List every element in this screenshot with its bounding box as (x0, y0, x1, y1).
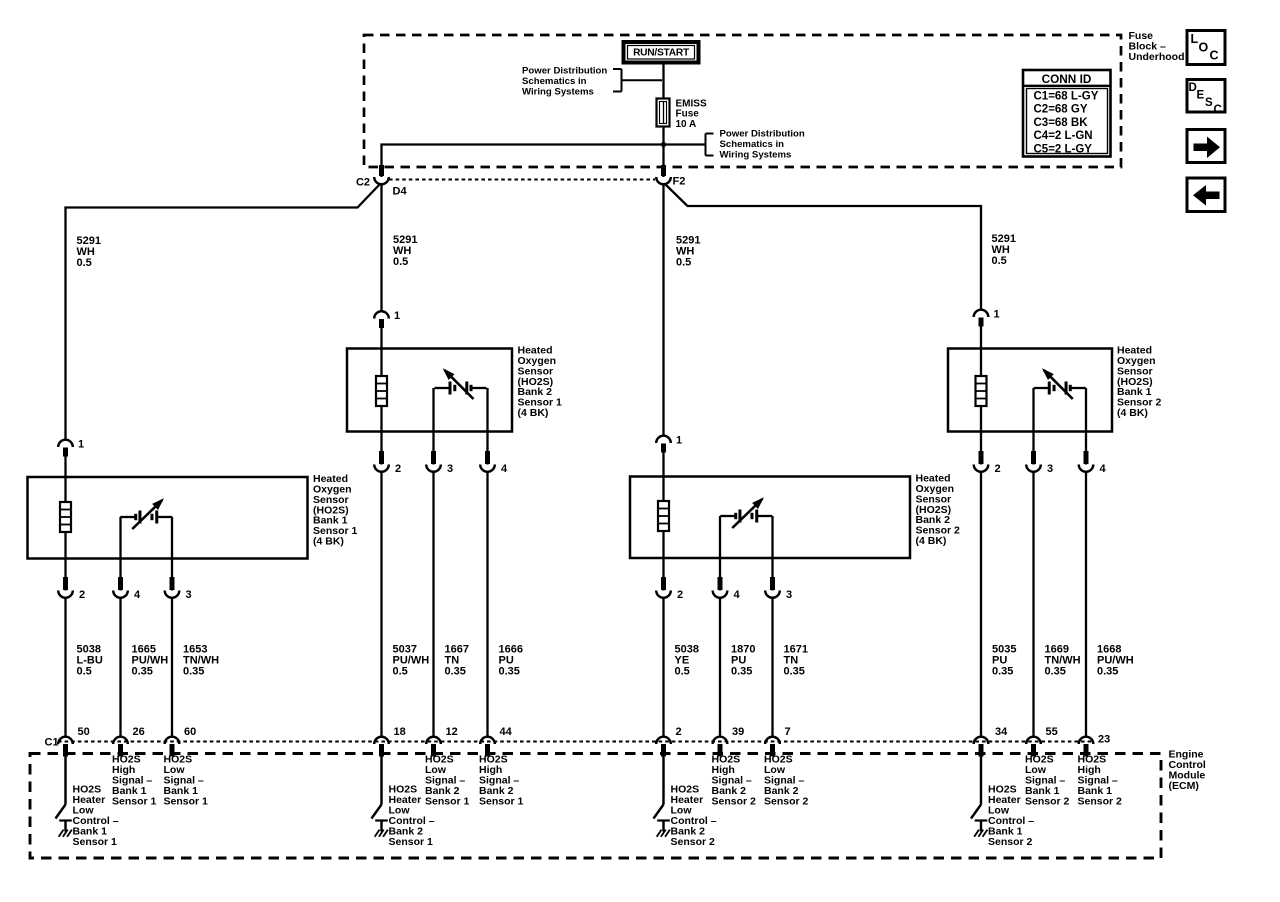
label HO2S Heater Low Control B2S1 (389, 784, 435, 849)
svg-text:55: 55 (1046, 726, 1058, 738)
svg-text:C: C (1210, 49, 1219, 63)
svg-text:1: 1 (676, 435, 682, 447)
label HO2S Heater Low Control B1S1 (73, 784, 119, 849)
wire F2 drop (5291 WH) (662, 184, 664, 437)
label pin 3 B2S1 (447, 463, 453, 475)
svg-text:F2: F2 (673, 176, 686, 188)
wire pin1 into B1S2 box (980, 325, 982, 377)
low-side driver at pin (18) (372, 757, 388, 837)
svg-text:60: 60 (184, 726, 196, 738)
svg-text:C5=2 L-GY: C5=2 L-GY (1034, 143, 1093, 155)
svg-text:C4=2 L-GN: C4=2 L-GN (1034, 130, 1093, 142)
connector pin 1 B1S1 (58, 440, 73, 457)
svg-text:L: L (1191, 32, 1199, 46)
wire fuse output to C2 drop (382, 145, 706, 178)
label circuit 1667 TN (445, 643, 469, 677)
label pin 1 B2S2 (676, 435, 682, 447)
svg-text:3: 3 (786, 589, 792, 601)
sensor cell B1S1 (120, 498, 172, 529)
label Heated Oxygen Sensor B2S1 (518, 345, 563, 419)
svg-text:Sensor 1: Sensor 1 (425, 796, 470, 808)
connector pin 4 B2S2 (713, 577, 728, 598)
wire D4 drop (5291 WH) (380, 184, 382, 312)
svg-text:Schematics in: Schematics in (720, 139, 785, 150)
label HO2S High Signal B2S2 (712, 754, 757, 808)
label ECM pin 50 (78, 726, 90, 738)
svg-text:12: 12 (446, 726, 458, 738)
heater element B2S2 (658, 501, 669, 531)
label HO2S High Signal B1S2 (1078, 754, 1123, 808)
sensor cell B2S2 (720, 497, 772, 528)
label ECM pin 39 (732, 726, 744, 738)
svg-text:0.35: 0.35 (1045, 665, 1066, 677)
wire pin 3 B1S2 to ECM pin 55 (1032, 471, 1034, 738)
wire sensor right leg B1S2 (1085, 388, 1087, 465)
svg-text:7: 7 (785, 726, 791, 738)
heater element B2S1 (376, 376, 387, 406)
svg-text:2: 2 (79, 589, 85, 601)
svg-text:0.5: 0.5 (393, 665, 408, 677)
label pin 1 B2S1 (394, 310, 400, 322)
label circuit 1665 PU/WH (132, 643, 169, 677)
svg-text:(ECM): (ECM) (1169, 780, 1199, 792)
wire pin 4 B2S2 to ECM pin 39 (719, 597, 721, 738)
svg-text:S: S (1205, 97, 1213, 109)
svg-text:0.35: 0.35 (132, 665, 153, 677)
connector pin 2 B1S2 (974, 451, 989, 472)
label circuit 1870 PU (731, 643, 755, 677)
svg-text:0.5: 0.5 (77, 257, 92, 269)
connector pin 3 B2S1 (426, 451, 441, 472)
label Engine Control Module (ECM) (1169, 749, 1206, 793)
svg-text:4: 4 (1100, 463, 1107, 475)
wire pin1 into B1S1 box (64, 455, 66, 503)
svg-text:34: 34 (995, 726, 1008, 738)
wire pin 4 B1S1 to ECM pin 26 (119, 597, 121, 738)
wire sensor right leg B2S2 (771, 516, 773, 591)
svg-text:4: 4 (734, 589, 741, 601)
button previous page (left arrow) (1187, 178, 1225, 212)
label circuit 1671 TN (784, 643, 808, 677)
ECM dashed box (30, 754, 1161, 859)
RUN/START node box (624, 42, 699, 63)
svg-text:0.5: 0.5 (393, 256, 408, 268)
wire sensor right leg B2S1 (486, 388, 488, 465)
svg-text:0.35: 0.35 (731, 665, 752, 677)
svg-text:C1=68 L-GY: C1=68 L-GY (1034, 91, 1099, 103)
svg-text:E: E (1197, 90, 1205, 102)
wire pin 2 B2S2 to ECM pin 2 (662, 597, 664, 738)
button next page (right arrow) (1187, 130, 1225, 163)
label Heated Oxygen Sensor B1S2 (1117, 345, 1162, 419)
low-side driver at pin (50) (56, 757, 72, 837)
ECM pin 50 connector (58, 737, 73, 757)
label pin 2 B2S2 (677, 589, 683, 601)
ECM pin 18 connector (374, 737, 389, 757)
ECM connector dotted line (58, 741, 1092, 743)
label 5291 WH 0.5 (right) (992, 233, 1016, 267)
junction dot at fuse output (661, 142, 666, 147)
label pin 2 B1S2 (995, 463, 1001, 475)
label F2 (673, 176, 686, 188)
svg-text:26: 26 (133, 726, 145, 738)
ECM pin 39 connector (713, 737, 728, 757)
wire sensor left leg B2S1 (432, 388, 434, 465)
wire sensor left leg B1S1 (119, 517, 121, 591)
label pin 4 B2S1 (501, 463, 508, 475)
label pin 1 B1S2 (994, 309, 1000, 321)
low-side driver at pin (2) (654, 757, 670, 837)
label ECM pin 12 (446, 726, 458, 738)
heater element B1S2 (976, 376, 987, 406)
svg-text:Sensor 2: Sensor 2 (764, 796, 809, 808)
svg-text:1: 1 (394, 310, 400, 322)
ECM pin 12 connector (426, 737, 441, 757)
connector pin 4 B1S2 (1079, 451, 1094, 472)
label ECM pin 7 (785, 726, 791, 738)
label HO2S Low Signal B2S1 (425, 754, 470, 808)
label HO2S High Signal B2S1 (479, 754, 524, 808)
connector C2 (374, 165, 389, 184)
label ECM pin 44 (500, 726, 513, 738)
sensor cell B2S1 (435, 368, 487, 399)
svg-text:0.5: 0.5 (675, 665, 690, 677)
svg-text:Schematics in: Schematics in (522, 76, 587, 87)
svg-text:Power Distribution: Power Distribution (720, 129, 805, 140)
svg-text:4: 4 (134, 589, 141, 601)
label circuit 1653 TN/WH (183, 643, 219, 677)
label HO2S Low Signal B2S2 (764, 754, 809, 808)
svg-text:4: 4 (501, 463, 508, 475)
label EMISS Fuse 10 A (676, 98, 707, 129)
label HO2S Low Signal B1S1 (164, 754, 209, 808)
connector pin 1 B2S2 (656, 436, 671, 453)
svg-text:Sensor 1: Sensor 1 (164, 796, 209, 808)
low-side driver at pin (34) (971, 757, 987, 837)
label circuit 5038 YE (675, 643, 699, 677)
connector dotted line C2 to F2 (389, 179, 655, 181)
label pin 1 B1S1 (78, 439, 84, 451)
label pin 4 B2S2 (734, 589, 741, 601)
heater element B1S1 (60, 502, 71, 532)
label pin 4 B1S2 (1100, 463, 1107, 475)
HO2S B1S2 box (948, 349, 1112, 432)
svg-text:(4 BK): (4 BK) (518, 407, 549, 419)
svg-text:0.35: 0.35 (992, 665, 1013, 677)
wire sensor right leg B1S1 (171, 517, 173, 591)
label C1 (45, 737, 59, 749)
connector F2 (656, 165, 671, 184)
label HO2S Heater Low Control B2S2 (671, 784, 717, 849)
label pin 3 B2S2 (786, 589, 792, 601)
connector pin 3 B1S2 (1026, 451, 1041, 472)
connector pin 3 B2S2 (765, 577, 780, 598)
wire pin 4 B2S1 to ECM pin 44 (486, 471, 488, 738)
note Power Distribution (lower) (720, 129, 805, 161)
connector pin 2 B2S2 (656, 577, 671, 598)
svg-text:Wiring Systems: Wiring Systems (720, 150, 792, 161)
connector pin 2 B2S1 (374, 451, 389, 472)
svg-text:C2: C2 (356, 177, 370, 189)
svg-text:Sensor 2: Sensor 2 (712, 796, 757, 808)
svg-text:Sensor 2: Sensor 2 (1025, 796, 1070, 808)
svg-text:Sensor 1: Sensor 1 (73, 836, 118, 848)
ECM pin 34 connector (974, 737, 989, 757)
svg-text:23: 23 (1098, 734, 1110, 746)
CONN ID entries (1034, 91, 1099, 156)
svg-text:C1: C1 (45, 737, 59, 749)
label C2 (356, 177, 370, 189)
button DESC (1187, 80, 1225, 117)
svg-text:39: 39 (732, 726, 744, 738)
svg-text:C: C (1214, 104, 1222, 116)
label ECM pin 18 (394, 726, 406, 738)
ECM pin 7 connector (765, 737, 780, 757)
svg-text:Sensor 1: Sensor 1 (112, 796, 157, 808)
ECM pin 26 connector (113, 737, 128, 757)
svg-text:2: 2 (677, 589, 683, 601)
ECM pin 44 connector (480, 737, 495, 757)
label circuit 1669 TN/WH (1045, 643, 1081, 677)
svg-text:D4: D4 (393, 186, 408, 198)
label ECM pin 34 (995, 726, 1008, 738)
label pin 4 B1S1 (134, 589, 141, 601)
svg-text:C3=68 BK: C3=68 BK (1034, 117, 1089, 129)
svg-text:0.35: 0.35 (183, 665, 204, 677)
label Heated Oxygen Sensor B1S1 (313, 473, 358, 547)
label D4 (393, 186, 408, 198)
svg-text:Sensor 2: Sensor 2 (671, 836, 716, 848)
wire pin 3 B1S1 to ECM pin 60 (171, 597, 173, 738)
wire sensor left leg B1S2 (1032, 388, 1034, 465)
HO2S B2S2 box (630, 477, 910, 559)
svg-text:0.35: 0.35 (784, 665, 805, 677)
svg-text:0.5: 0.5 (992, 255, 1007, 267)
label circuit 5035 PU (992, 643, 1016, 677)
label RUN/START (633, 48, 690, 59)
HO2S B1S1 box (28, 477, 308, 559)
wire C2 branch to left run (5291 WH) (66, 184, 381, 440)
label pin 2 B2S1 (395, 463, 401, 475)
wire F2 branch to right run (5291 WH) (665, 184, 981, 311)
wire heater to pin cup B2S1 (380, 405, 382, 465)
wire RUN/START to EMISS fuse to F2 (662, 63, 664, 178)
label HO2S High Signal B1S1 (112, 754, 157, 808)
svg-text:0.5: 0.5 (676, 256, 691, 268)
button LOC (1187, 31, 1225, 65)
label pin 3 B1S2 (1047, 463, 1053, 475)
label circuit 1666 PU (499, 643, 523, 677)
wire pin 2 B1S1 to ECM pin 50 (64, 597, 66, 738)
svg-text:Wiring Systems: Wiring Systems (522, 87, 594, 98)
svg-text:1: 1 (78, 439, 84, 451)
wire pin 2 B1S2 to ECM pin 34 (980, 471, 982, 738)
wire heater to pin cup B2S2 (662, 530, 664, 591)
svg-text:1: 1 (994, 309, 1000, 321)
connector pin 1 B2S1 (374, 311, 389, 328)
wire pin1 into B2S1 box (380, 327, 382, 378)
svg-text:0.35: 0.35 (445, 665, 466, 677)
svg-text:0.5: 0.5 (77, 665, 92, 677)
svg-text:Sensor 1: Sensor 1 (389, 836, 434, 848)
bracket lower note (706, 134, 714, 156)
svg-text:3: 3 (447, 463, 453, 475)
svg-text:(4 BK): (4 BK) (1117, 407, 1148, 419)
note Power Distribution (upper) (522, 66, 607, 98)
svg-text:Sensor 1: Sensor 1 (479, 796, 524, 808)
svg-text:2: 2 (676, 726, 682, 738)
svg-text:(4 BK): (4 BK) (313, 535, 344, 547)
svg-text:O: O (1199, 41, 1209, 55)
svg-text:3: 3 (1047, 463, 1053, 475)
svg-text:50: 50 (78, 726, 90, 738)
label ECM pin 26 (133, 726, 145, 738)
CONN ID table box (1023, 70, 1111, 157)
label circuit 5037 PU/WH (393, 643, 430, 677)
svg-text:CONN ID: CONN ID (1042, 72, 1092, 86)
label circuit 1668 PU/WH (1097, 643, 1134, 677)
svg-text:C2=68 GY: C2=68 GY (1034, 104, 1088, 116)
label HO2S Heater Low Control B1S2 (988, 784, 1034, 849)
label 5291 WH 0.5 (second) (393, 234, 417, 268)
svg-text:2: 2 (995, 463, 1001, 475)
svg-text:(4 BK): (4 BK) (916, 535, 947, 547)
svg-text:Sensor 2: Sensor 2 (988, 836, 1033, 848)
label pin 2 B1S1 (79, 589, 85, 601)
svg-text:Underhood: Underhood (1129, 51, 1185, 63)
fuse EMISS 10A (657, 99, 670, 127)
wire pin1 into B2S2 box (662, 451, 664, 502)
connector pin 4 B2S1 (480, 451, 495, 472)
svg-text:2: 2 (395, 463, 401, 475)
HO2S B2S1 box (347, 349, 512, 432)
label ECM pin 23 (1098, 734, 1110, 746)
wire pin 2 B2S1 to ECM pin 18 (380, 471, 382, 738)
connector pin 1 B1S2 (974, 310, 989, 327)
ECM pin 55 connector (1026, 737, 1041, 757)
connector pin 3 B1S1 (165, 577, 180, 598)
svg-text:Sensor 2: Sensor 2 (1078, 796, 1123, 808)
svg-text:RUN/START: RUN/START (633, 48, 690, 59)
wire sensor left leg B2S2 (719, 516, 721, 591)
bracket upper note (613, 69, 662, 92)
label Heated Oxygen Sensor B2S2 (916, 473, 961, 547)
label ECM pin 60 (184, 726, 196, 738)
ECM pin 2 connector (656, 737, 671, 757)
label circuit 5038 L-BU (77, 643, 103, 677)
label 5291 WH 0.5 (third) (676, 234, 700, 268)
wire heater to pin cup B1S2 (980, 405, 982, 465)
svg-text:18: 18 (394, 726, 406, 738)
label pin 3 B1S1 (186, 589, 192, 601)
sensor cell B1S2 (1034, 368, 1086, 399)
ECM pin 23 connector (1079, 737, 1094, 757)
svg-text:0.35: 0.35 (499, 665, 520, 677)
wire pin 4 B1S2 to ECM pin 23 (1085, 471, 1087, 738)
fuse block - underhood dashed box (364, 35, 1121, 167)
label 5291 WH 0.5 (left) (77, 235, 101, 269)
wire pin 3 B2S2 to ECM pin 7 (771, 597, 773, 738)
svg-text:Power Distribution: Power Distribution (522, 66, 607, 77)
ECM pin 60 connector (165, 737, 180, 757)
label HO2S Low Signal B1S2 (1025, 754, 1070, 808)
svg-text:10 A: 10 A (676, 119, 697, 130)
connector pin 4 B1S1 (113, 577, 128, 598)
svg-text:3: 3 (186, 589, 192, 601)
label Fuse Block - Underhood (1129, 30, 1185, 63)
svg-text:0.35: 0.35 (1097, 665, 1118, 677)
wire pin 3 B2S1 to ECM pin 12 (432, 471, 434, 738)
label ECM pin 55 (1046, 726, 1058, 738)
label CONN ID header (1042, 72, 1092, 86)
label ECM pin 2 (676, 726, 682, 738)
connector pin 2 B1S1 (58, 577, 73, 598)
svg-text:44: 44 (500, 726, 513, 738)
wire heater to pin cup B1S1 (64, 531, 66, 591)
